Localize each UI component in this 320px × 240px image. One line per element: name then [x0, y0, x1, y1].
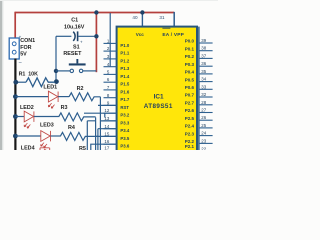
svg-text:22: 22 [201, 146, 206, 150]
svg-text:–: – [19, 60, 22, 66]
pin 3 P1.2 stub [104, 58, 117, 60]
svg-text:LED2: LED2 [20, 105, 34, 111]
resistor R1 [15, 78, 55, 87]
svg-text:LED3: LED3 [40, 122, 54, 128]
pin 23 P2.2 stub [199, 142, 213, 144]
svg-text:10u,16V: 10u,16V [64, 24, 85, 30]
pin 35 P0.4 stub [199, 73, 213, 75]
svg-text:P2.3: P2.3 [185, 131, 195, 136]
wire: P3.2 pin 12 long stub [84, 112, 117, 114]
pin 39 P0.0 stub [199, 42, 213, 44]
svg-text:25: 25 [201, 123, 206, 128]
svg-text:P2.6: P2.6 [185, 108, 195, 113]
node: junction dot C1 to red rail drop [94, 34, 98, 38]
svg-text:R2: R2 [77, 86, 84, 92]
svg-text:40: 40 [132, 15, 138, 20]
pin 24 P2.3 stub [199, 135, 213, 137]
pin 5 P1.4 stub [104, 73, 117, 75]
pin 38 P0.1 stub [199, 50, 213, 52]
wire: RST net to pin 9 [98, 104, 117, 106]
svg-text:P2.1: P2.1 [185, 144, 195, 149]
wire: R2 output drop [99, 97, 101, 150]
svg-text:P1.4: P1.4 [120, 74, 129, 79]
svg-text:P2.4: P2.4 [185, 124, 195, 129]
pin 33 P0.6 stub [199, 88, 213, 90]
wire: red drop to CON1 + [14, 12, 16, 38]
svg-text:S1: S1 [73, 45, 80, 51]
svg-text:P3.3: P3.3 [120, 120, 129, 125]
svg-text:R4: R4 [68, 125, 75, 131]
wire: R3 output drop [95, 117, 97, 150]
resistor R4 [60, 132, 98, 140]
pin 37 P0.2 stub [199, 57, 213, 59]
svg-text:C1: C1 [71, 18, 78, 24]
svg-text:R5: R5 [79, 146, 86, 150]
wire: pin12 to R3 connector [104, 113, 106, 117]
left pins group: stubs, numbers, labels [104, 39, 130, 151]
svg-text:P1.6: P1.6 [120, 89, 129, 94]
svg-text:24: 24 [201, 131, 206, 136]
svg-text:27: 27 [201, 108, 206, 113]
wire: Vcc pin 40 stub [141, 13, 143, 28]
svg-text:38: 38 [201, 46, 206, 51]
label C1 10u,16V [64, 18, 85, 31]
node: junction dot R1 right [54, 79, 59, 84]
svg-text:LED1: LED1 [43, 85, 57, 91]
svg-text:33: 33 [201, 84, 206, 89]
wire: +5V rail (red) [15, 12, 174, 72]
pin 14 P3.4 stub [104, 128, 117, 130]
svg-text:RESET: RESET [63, 51, 82, 57]
svg-text:P0.7: P0.7 [185, 93, 195, 98]
pin 28 P2.7 stub [199, 104, 213, 106]
svg-text:31: 31 [159, 15, 165, 20]
scan edge left [0, 0, 2, 150]
pin 26 P2.5 stub [199, 119, 213, 121]
svg-text:P0.1: P0.1 [185, 46, 195, 51]
pin 25 P2.4 stub [199, 127, 213, 129]
resistor R2 [69, 93, 100, 101]
svg-text:P1.7: P1.7 [120, 97, 129, 102]
LED LED2 [24, 111, 34, 128]
svg-text:P0.3: P0.3 [185, 62, 195, 67]
wire: red drop to reset circuit [95, 13, 97, 73]
svg-text:P0.5: P0.5 [185, 77, 195, 82]
LED LED1 [48, 91, 58, 108]
node: junction dot LED3 to ground rail [13, 134, 18, 139]
svg-text:P2.7: P2.7 [185, 101, 195, 106]
pin 6 P1.5 stub [104, 81, 117, 83]
wire: ground to LED2 [15, 116, 24, 118]
svg-text:36: 36 [201, 61, 206, 66]
wire: extra bus drop [87, 121, 95, 150]
svg-text:P0.0: P0.0 [185, 39, 195, 44]
svg-text:CON1: CON1 [20, 38, 35, 44]
pin 36 P0.3 stub [199, 65, 213, 67]
svg-text:32: 32 [201, 92, 206, 97]
LED LED4 (clipped at frame bottom) [40, 148, 50, 151]
svg-text:17: 17 [104, 145, 109, 150]
wire: drop to EA/VPP pin 31 [173, 12, 175, 28]
svg-text:5V: 5V [20, 52, 27, 58]
svg-text:+: + [80, 39, 83, 44]
pin 32 P0.7 stub [199, 96, 213, 98]
label CON1 FOR 5V [20, 38, 35, 57]
pin 8 P1.7 stub [104, 97, 117, 99]
svg-text:37: 37 [201, 53, 206, 58]
svg-text:P2.5: P2.5 [185, 116, 195, 121]
svg-text:R1: R1 [19, 72, 26, 78]
svg-text:P1.3: P1.3 [120, 66, 129, 71]
svg-text:P3.5: P3.5 [120, 136, 129, 141]
IC U1 body [117, 27, 199, 153]
wire: R4 output drop [97, 129, 99, 150]
svg-text:P0.2: P0.2 [185, 54, 195, 59]
wire: pin 14 wire and drop [98, 128, 117, 130]
svg-text:LED4: LED4 [21, 145, 35, 150]
wire: ground rail (black) [14, 59, 16, 151]
svg-text:14: 14 [104, 124, 109, 129]
svg-text:IC1: IC1 [154, 93, 164, 100]
svg-text:15: 15 [104, 132, 109, 137]
svg-text:R3: R3 [61, 105, 68, 111]
wire: Vcc to pin4 riser [109, 13, 111, 66]
connector CON1 [9, 35, 22, 66]
pin 7 P1.6 stub [104, 89, 117, 91]
pin 9 RST stub [104, 104, 117, 106]
IC right shadow line [198, 27, 200, 150]
wire: LED1 to R2 [58, 96, 69, 98]
svg-text:34: 34 [201, 77, 206, 82]
svg-text:P0.6: P0.6 [185, 85, 195, 90]
pin 13 P3.3 stub [104, 120, 117, 122]
svg-text:13: 13 [104, 116, 109, 121]
svg-text:P3.6: P3.6 [120, 144, 129, 149]
wire: pin 15 wire joining R3 drop [96, 135, 117, 137]
pin 4 P1.3 stub [104, 66, 117, 68]
svg-text:23: 23 [201, 138, 206, 143]
svg-text:12: 12 [104, 108, 109, 113]
LED LED3 [41, 131, 51, 148]
capacitor C1 [56, 31, 96, 44]
svg-text:10K: 10K [28, 72, 38, 78]
wire: pin 16 wire and drop [91, 144, 117, 150]
node: junction dot on rail at reset drop [94, 10, 98, 14]
node: junction dot S1 left [54, 69, 58, 73]
svg-text:RST: RST [120, 105, 129, 110]
svg-text:39: 39 [201, 38, 206, 43]
wire: LED2 to R3 [34, 116, 59, 118]
svg-text:Vcc: Vcc [136, 32, 145, 37]
node: junction dot on rail at Vcc stub [140, 10, 144, 14]
pin 2 P1.1 stub [104, 50, 117, 52]
pin 12 P3.2 stub [104, 112, 117, 114]
pin 15 P3.5 stub [104, 135, 117, 137]
svg-text:P3.4: P3.4 [120, 128, 129, 133]
pin 34 P0.5 stub [199, 81, 213, 83]
svg-text:P1.0: P1.0 [120, 43, 129, 48]
wire: ground to LED3 [15, 135, 40, 137]
node: junction dot LED1 to ground rail [13, 94, 18, 99]
wire: pin 13 wire and drop [100, 120, 116, 122]
svg-text:P1.1: P1.1 [120, 51, 129, 56]
right pins group [185, 38, 213, 151]
wire: RST net vertical from C1 to R1 [55, 36, 57, 82]
svg-text:16: 16 [104, 139, 109, 144]
wire: ground to LED1 [15, 96, 48, 98]
svg-text:35: 35 [201, 69, 206, 74]
svg-text:P1.2: P1.2 [120, 58, 129, 63]
svg-text:P0.4: P0.4 [185, 70, 195, 75]
pin 27 P2.6 stub [199, 112, 213, 114]
switch S1 [56, 59, 96, 73]
svg-text:AT89S51: AT89S51 [144, 103, 173, 110]
svg-text:EA / VPP: EA / VPP [162, 32, 184, 38]
label S1 RESET [63, 45, 82, 57]
resistor R3 [59, 113, 96, 121]
pin 16 P3.6 stub [104, 143, 117, 145]
node: junction dot LED2 to ground rail [13, 114, 18, 119]
svg-text:P1.5: P1.5 [120, 82, 129, 87]
svg-text:26: 26 [201, 115, 206, 120]
pin 1 P1.0 stub [104, 42, 117, 44]
svg-text:P3.2: P3.2 [120, 113, 129, 118]
node: junction dot R1 to ground rail [13, 80, 18, 85]
svg-text:FOR: FOR [20, 45, 31, 51]
wire: LED3 to R4 [51, 135, 61, 137]
svg-text:28: 28 [201, 100, 206, 105]
scan edge top [0, 0, 218, 1]
